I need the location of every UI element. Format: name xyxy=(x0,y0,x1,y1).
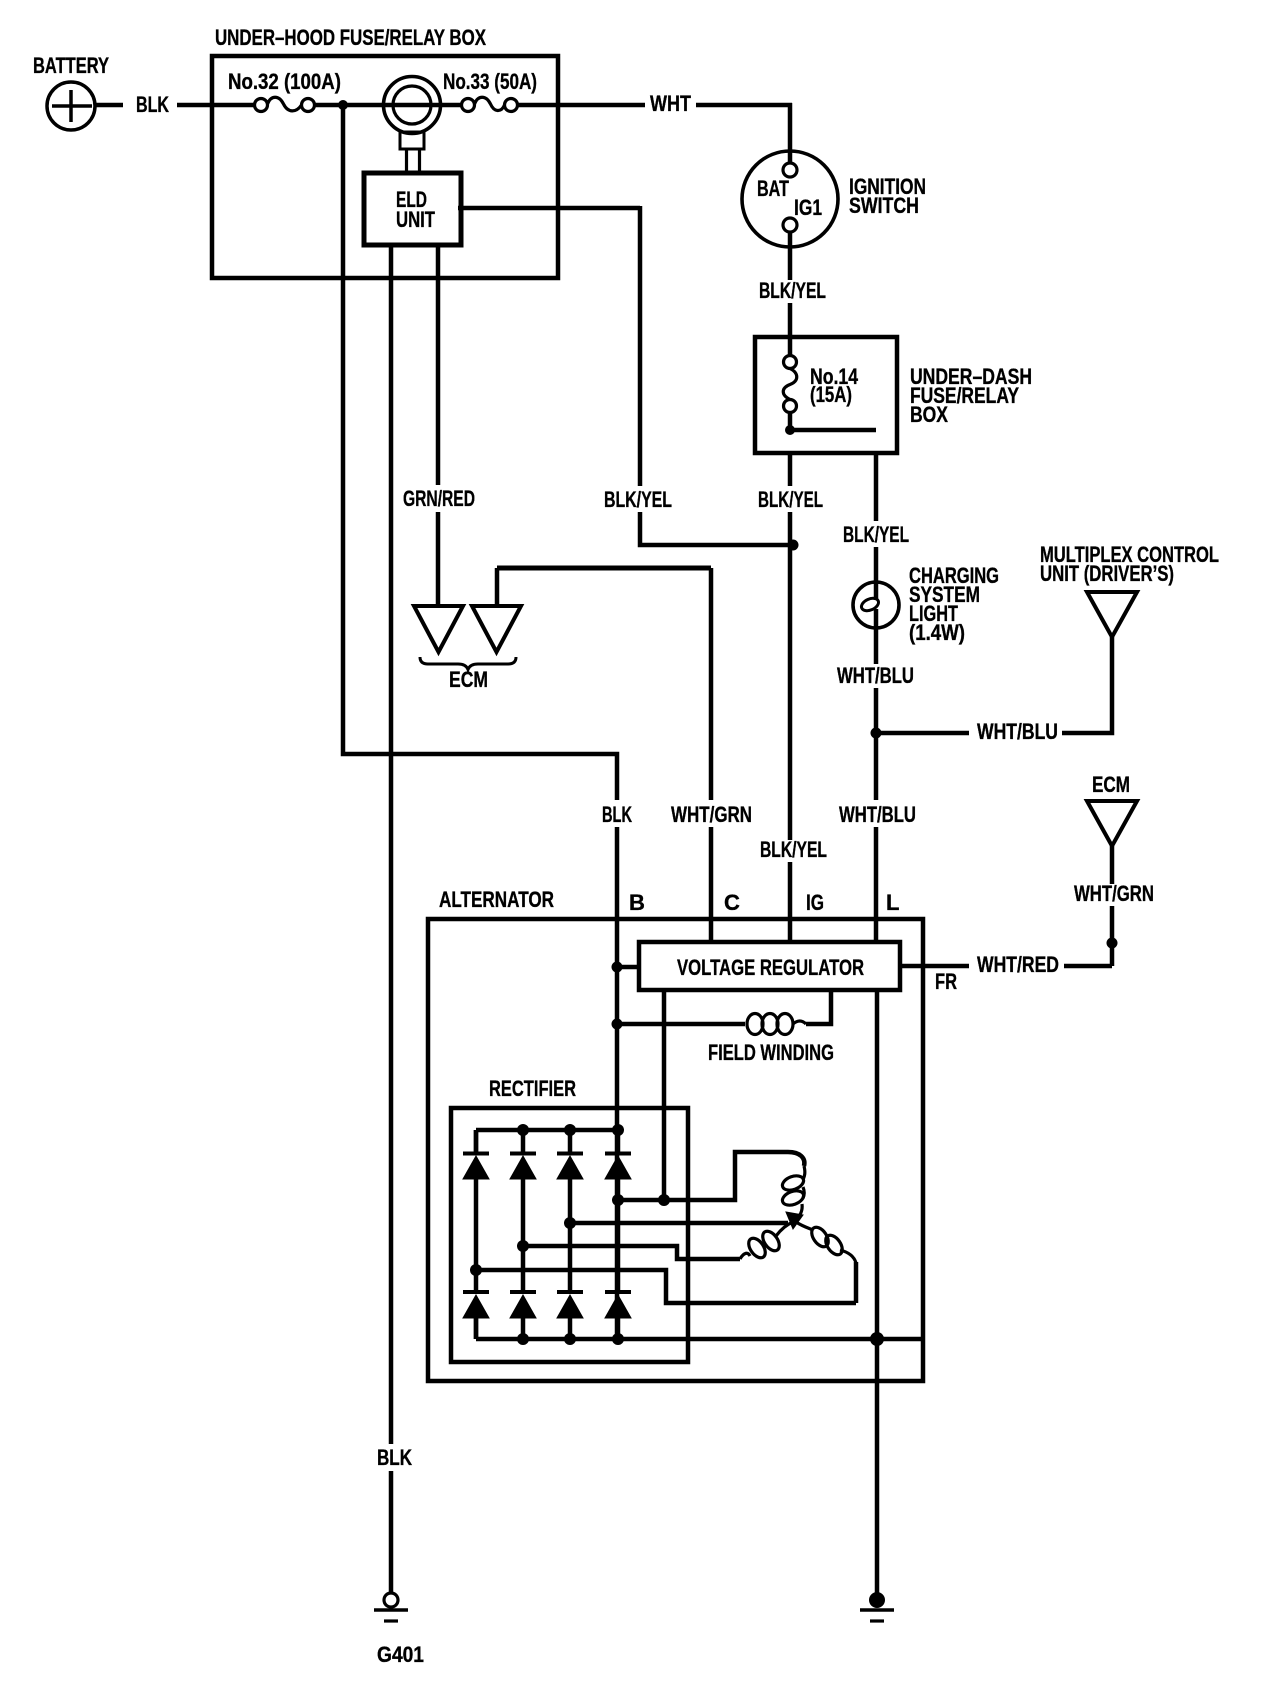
svg-text:(1.4W): (1.4W) xyxy=(909,620,965,645)
svg-text:WHT/GRN: WHT/GRN xyxy=(671,802,752,827)
svg-text:FR: FR xyxy=(935,969,957,994)
svg-text:No.33 (50A): No.33 (50A) xyxy=(443,69,537,94)
svg-text:BLK/YEL: BLK/YEL xyxy=(760,837,827,862)
svg-text:SWITCH: SWITCH xyxy=(849,193,919,218)
svg-text:G401: G401 xyxy=(377,1642,424,1667)
svg-text:L: L xyxy=(886,890,899,915)
svg-text:B: B xyxy=(629,890,645,915)
svg-text:IG: IG xyxy=(806,890,824,915)
svg-text:No.32 (100A): No.32 (100A) xyxy=(228,69,341,94)
svg-text:C: C xyxy=(724,890,740,915)
svg-text:UNIT: UNIT xyxy=(396,207,435,232)
svg-text:BLK: BLK xyxy=(377,1445,412,1470)
svg-text:BAT: BAT xyxy=(757,176,789,201)
svg-text:WHT/BLU: WHT/BLU xyxy=(837,663,914,688)
svg-text:WHT: WHT xyxy=(650,91,691,116)
svg-text:UNIT (DRIVER’S): UNIT (DRIVER’S) xyxy=(1040,561,1174,586)
svg-text:IG1: IG1 xyxy=(794,195,822,220)
svg-text:BLK: BLK xyxy=(136,92,169,117)
svg-text:RECTIFIER: RECTIFIER xyxy=(489,1076,576,1101)
svg-text:ALTERNATOR: ALTERNATOR xyxy=(439,887,554,912)
svg-text:WHT/BLU: WHT/BLU xyxy=(977,719,1058,744)
svg-text:BLK/YEL: BLK/YEL xyxy=(843,522,909,547)
svg-text:UNDER–HOOD FUSE/RELAY BOX: UNDER–HOOD FUSE/RELAY BOX xyxy=(215,25,486,50)
svg-text:FIELD WINDING: FIELD WINDING xyxy=(708,1040,834,1065)
svg-text:WHT/RED: WHT/RED xyxy=(977,952,1059,977)
svg-text:BLK/YEL: BLK/YEL xyxy=(758,487,823,512)
svg-text:BLK/YEL: BLK/YEL xyxy=(759,278,826,303)
svg-text:BATTERY: BATTERY xyxy=(33,53,109,78)
svg-text:WHT/BLU: WHT/BLU xyxy=(839,802,916,827)
svg-text:ECM: ECM xyxy=(449,667,488,692)
svg-text:BLK/YEL: BLK/YEL xyxy=(604,487,672,512)
svg-text:GRN/RED: GRN/RED xyxy=(403,486,475,511)
svg-text:(15A): (15A) xyxy=(810,382,852,407)
svg-text:BOX: BOX xyxy=(910,402,948,427)
svg-text:VOLTAGE REGULATOR: VOLTAGE REGULATOR xyxy=(677,955,864,980)
svg-text:BLK: BLK xyxy=(602,802,632,827)
svg-text:ECM: ECM xyxy=(1092,772,1130,797)
svg-text:WHT/GRN: WHT/GRN xyxy=(1074,881,1154,906)
